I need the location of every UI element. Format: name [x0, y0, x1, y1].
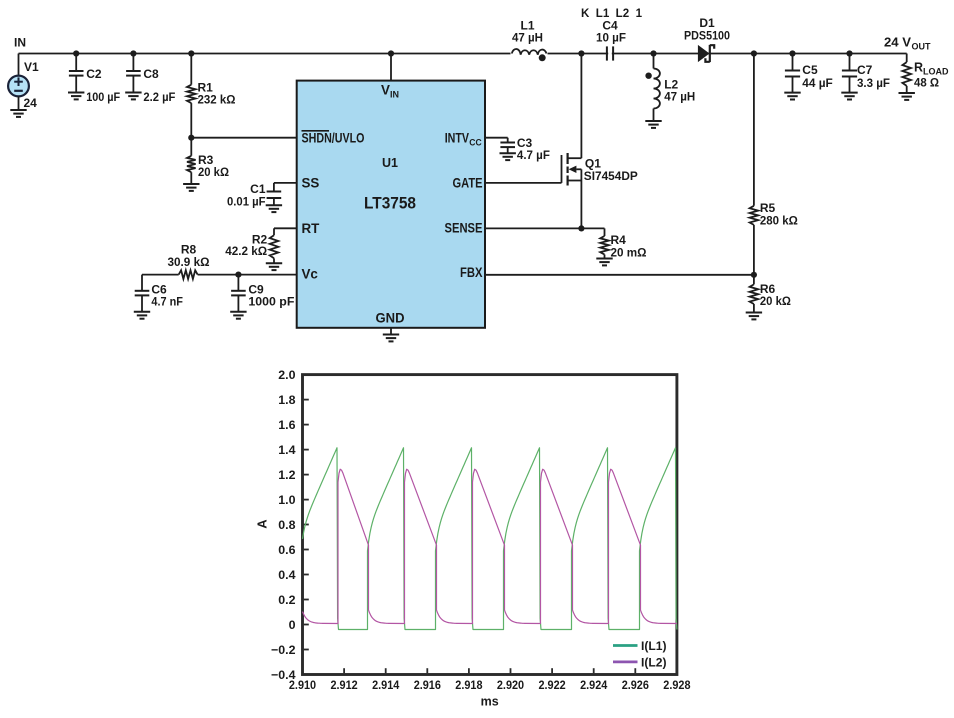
svg-text:2.918: 2.918 [455, 678, 482, 692]
capacitor C9 [231, 275, 294, 312]
resistor R4 [600, 233, 647, 259]
node Q1 drain junction [578, 50, 584, 56]
node SENSE junction [578, 225, 584, 231]
svg-text:1000 pF: 1000 pF [248, 295, 294, 309]
inductor L2 [654, 54, 696, 122]
ground R4 [596, 259, 612, 266]
svg-text:2.0: 2.0 [278, 368, 295, 382]
svg-text:48 Ω: 48 Ω [914, 76, 939, 90]
node L2 junction [650, 50, 656, 56]
svg-text:I(L2): I(L2) [641, 655, 667, 669]
pin SENSE label [445, 220, 483, 235]
capacitor C3 [500, 136, 550, 162]
svg-text:2.922: 2.922 [539, 678, 566, 692]
svg-text:C8: C8 [143, 67, 159, 81]
node output junction [751, 50, 757, 56]
pin GATE label [453, 175, 483, 190]
node VIN junction [388, 50, 394, 56]
svg-text:RT: RT [302, 221, 321, 236]
capacitor C4 [596, 19, 626, 61]
svg-text:C5: C5 [802, 63, 818, 77]
wire SHDN/UVLO [191, 137, 296, 139]
svg-text:Vc: Vc [302, 267, 319, 282]
svg-text:10 µF: 10 µF [596, 31, 626, 45]
svg-text:C7: C7 [857, 63, 873, 77]
svg-text:1.4: 1.4 [278, 443, 295, 457]
svg-text:SHDN/UVLO: SHDN/UVLO [302, 130, 365, 145]
wire GND pin [390, 328, 392, 335]
capacitor C8 [126, 54, 175, 105]
resistor R1 [187, 54, 236, 138]
svg-text:−0.2: −0.2 [271, 643, 296, 657]
pin SS label [302, 176, 320, 191]
svg-text:0.4: 0.4 [278, 568, 295, 582]
phase dot L2 [645, 73, 651, 79]
node FBX junction [751, 272, 757, 278]
label K L1 L2 1 coupling [581, 6, 642, 20]
svg-text:A: A [255, 519, 270, 529]
svg-text:SS: SS [302, 176, 320, 191]
wire SS pin [274, 183, 297, 192]
label U1 [382, 156, 398, 170]
node R1 top junction [188, 50, 194, 56]
node C2 junction [73, 50, 79, 56]
svg-text:1.0: 1.0 [278, 493, 295, 507]
wire SENSE pin [485, 227, 581, 229]
svg-text:I(L1): I(L1) [641, 639, 667, 653]
svg-text:V1: V1 [24, 60, 39, 74]
ground R6 [746, 313, 762, 320]
svg-text:PDS5100: PDS5100 [684, 28, 730, 42]
svg-text:24 V: 24 V [884, 36, 912, 50]
svg-text:2.912: 2.912 [331, 678, 358, 692]
svg-text:2.928: 2.928 [663, 678, 690, 692]
ground R2 [266, 263, 282, 270]
wire RT pin [274, 227, 297, 229]
svg-text:LT3758: LT3758 [364, 195, 416, 213]
ground C6 [134, 312, 150, 319]
node C8 junction [130, 50, 136, 56]
ground C7 [841, 93, 857, 100]
svg-text:20 mΩ: 20 mΩ [611, 245, 647, 259]
capacitor C2 [69, 54, 120, 105]
wire Vc to R8 [198, 274, 239, 276]
pin VIN label [381, 83, 399, 100]
pin INTVCC label [445, 130, 482, 147]
wire SENSE to R4 [581, 228, 604, 236]
node SHDN divider junction [188, 135, 194, 141]
svg-text:2.916: 2.916 [414, 678, 441, 692]
svg-text:OUT: OUT [912, 42, 932, 52]
svg-text:100 µF: 100 µF [86, 90, 120, 104]
svg-text:0.6: 0.6 [278, 543, 295, 557]
wire Vc pin [238, 274, 296, 276]
pin RT label [302, 221, 321, 236]
capacitor C5 [785, 54, 833, 93]
ground C8 [125, 93, 141, 100]
svg-text:U1: U1 [382, 156, 398, 170]
pin FBX label [460, 265, 483, 280]
wire R8 to C6 [142, 274, 179, 276]
inductor L1 [511, 19, 548, 55]
ground RLOAD [899, 93, 915, 100]
svg-text:R: R [914, 61, 923, 75]
node IN label [14, 36, 26, 50]
transistor Q1 SI7454DP [485, 54, 638, 229]
svg-text:280 kΩ: 280 kΩ [760, 213, 798, 227]
resistor R8 [168, 242, 210, 279]
svg-text:V: V [381, 83, 390, 98]
svg-text:47 µH: 47 µH [664, 90, 695, 104]
wire VIN pin [390, 54, 392, 81]
ground C9 [230, 312, 246, 319]
label 24 VOUT [884, 36, 931, 52]
label LT3758 [364, 195, 416, 213]
wire output to R5 [753, 54, 755, 206]
svg-text:24: 24 [24, 96, 38, 110]
resistor R3 [187, 138, 229, 184]
ground U1 GND [383, 335, 399, 342]
svg-text:2.924: 2.924 [580, 678, 607, 692]
svg-text:IN: IN [14, 36, 26, 50]
node C7 junction [846, 50, 852, 56]
wire V1 to ground [18, 96, 20, 110]
node C5 junction [789, 50, 795, 56]
pin Vc label [302, 267, 319, 282]
wire INTVCC pin [485, 138, 508, 143]
svg-text:30.9 kΩ: 30.9 kΩ [168, 255, 210, 269]
svg-text:FBX: FBX [460, 265, 483, 280]
resistor RLOAD [902, 54, 949, 94]
svg-text:4.7 nF: 4.7 nF [151, 295, 183, 309]
ground C3 [500, 153, 516, 160]
svg-text:C2: C2 [86, 67, 102, 81]
svg-text:44 µF: 44 µF [802, 76, 833, 90]
svg-text:0.2: 0.2 [278, 593, 295, 607]
svg-text:2.914: 2.914 [372, 678, 399, 692]
ground V1 [10, 110, 26, 117]
resistor R2 [225, 228, 278, 263]
capacitor C7 [842, 54, 890, 93]
svg-text:1.8: 1.8 [278, 393, 295, 407]
svg-text:2.910: 2.910 [289, 678, 316, 692]
svg-text:42.2 kΩ: 42.2 kΩ [225, 244, 267, 258]
op-amp U1 LT3758 block [297, 81, 485, 328]
svg-text:3.3 µF: 3.3 µF [857, 76, 890, 90]
svg-text:SENSE: SENSE [445, 220, 483, 235]
svg-text:GND: GND [376, 311, 405, 326]
svg-text:ms: ms [481, 695, 499, 709]
svg-text:INTV: INTV [445, 130, 469, 145]
svg-text:0: 0 [289, 618, 296, 632]
svg-text:SI7454DP: SI7454DP [584, 169, 638, 183]
resistor R5 [750, 201, 799, 275]
ground C1 [266, 205, 282, 212]
svg-text:2.2 µF: 2.2 µF [143, 90, 175, 104]
svg-text:47 µH: 47 µH [512, 31, 543, 45]
pin GND label [376, 311, 405, 326]
resistor R6 [750, 275, 792, 313]
node C9 junction [235, 272, 241, 278]
capacitor C1 [227, 182, 281, 208]
svg-text:20 kΩ: 20 kΩ [760, 294, 791, 308]
pin SHDN/UVLO label [302, 130, 365, 145]
diode D1 PDS5100 [684, 16, 730, 62]
waveform chart [255, 368, 691, 709]
svg-text:0.8: 0.8 [278, 518, 295, 532]
svg-text:0.01 µF: 0.01 µF [227, 194, 266, 208]
ground L2 [645, 121, 661, 128]
wire main input rail [19, 53, 907, 55]
ground R3 [183, 184, 199, 191]
svg-text:IN: IN [390, 90, 399, 100]
svg-text:1.6: 1.6 [278, 418, 295, 432]
phase dot L1 [539, 54, 546, 61]
svg-text:CC: CC [469, 137, 482, 147]
wire FBX pin [485, 274, 754, 276]
svg-text:2.920: 2.920 [497, 678, 524, 692]
ground C5 [784, 93, 800, 100]
voltage source V1 [8, 54, 39, 111]
svg-text:2.926: 2.926 [622, 678, 649, 692]
svg-text:GATE: GATE [453, 175, 483, 190]
capacitor C6 [135, 275, 183, 312]
svg-text:232 kΩ: 232 kΩ [198, 93, 236, 107]
svg-text:1.2: 1.2 [278, 468, 295, 482]
ground C2 [68, 93, 84, 100]
svg-text:20 kΩ: 20 kΩ [198, 165, 229, 179]
svg-text:4.7 µF: 4.7 µF [517, 148, 550, 162]
